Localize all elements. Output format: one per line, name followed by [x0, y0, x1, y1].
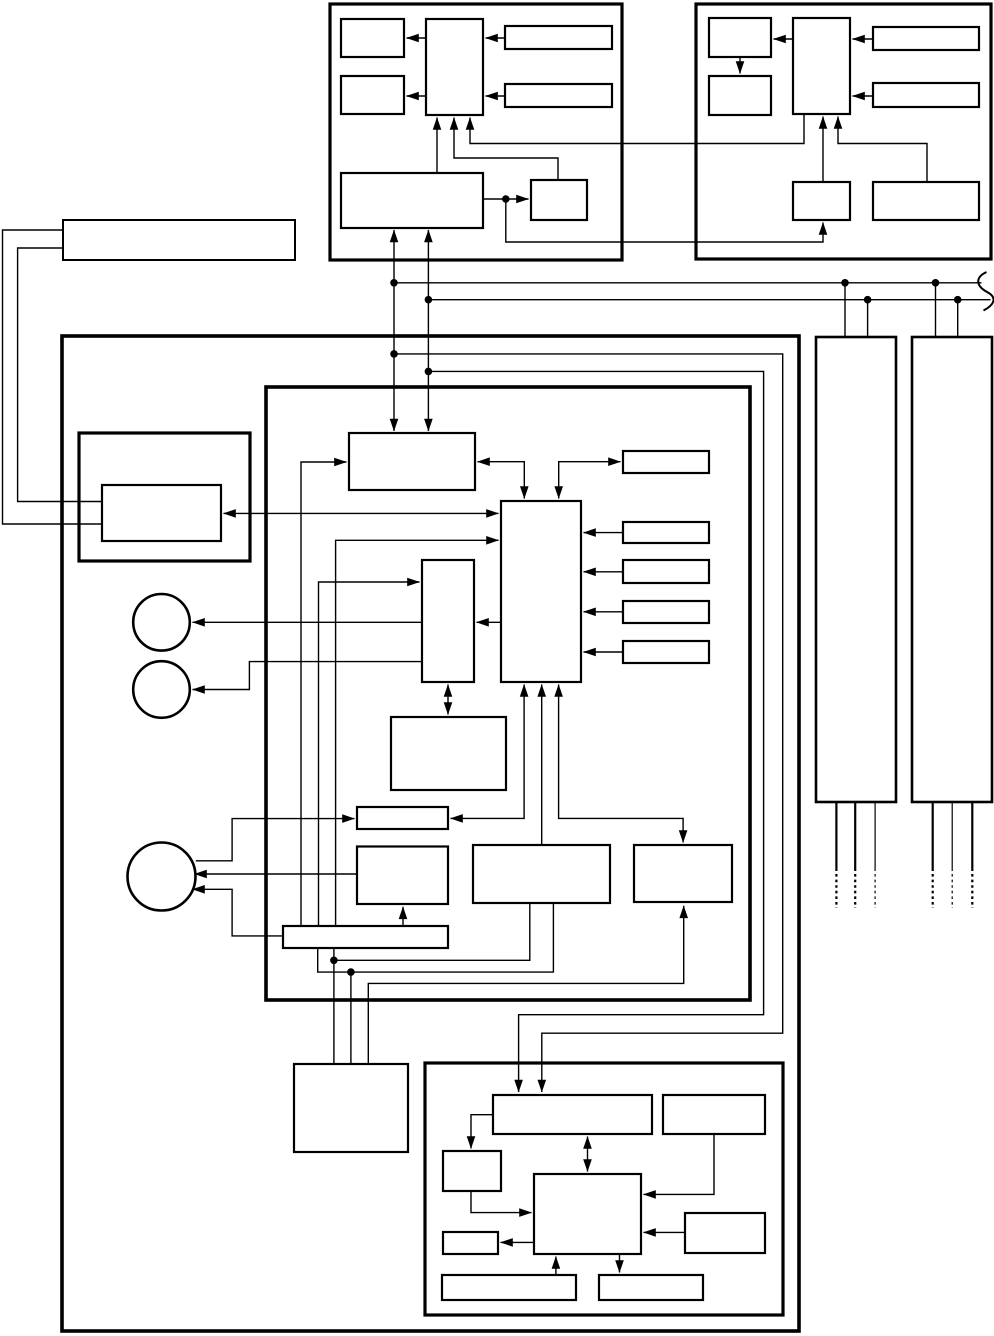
wire: K to circle 3 — [195, 873, 358, 875]
box TR-D — [873, 27, 979, 50]
tail solid lines below tall box B — [932, 802, 934, 871]
tail dotted lines below tall box B — [932, 874, 934, 908]
box TWB2: bottom-right top wide box — [493, 1095, 652, 1134]
box: tall right A — [816, 337, 896, 802]
box R2 — [623, 522, 709, 543]
wire: R5 to TLB — [584, 651, 624, 653]
drop wire bus1 to tall box A — [844, 283, 846, 337]
junction dot bus2/vert2 — [425, 296, 433, 304]
wire V3: WFB up to TLB — [336, 540, 499, 926]
wire: junction down to BLB (x=351) — [350, 972, 352, 1064]
circle 1 — [133, 594, 190, 651]
box R4 — [623, 601, 709, 623]
box TL-A — [341, 19, 404, 57]
box TR-G — [793, 182, 850, 220]
bus vertical 2 (x=428) with arrows into TL-F and top box — [427, 230, 429, 431]
drop wire bus2 to tall box B — [957, 300, 959, 337]
box TR-F — [873, 182, 979, 220]
wire: TR-F top to TR-C bottom — [838, 117, 927, 183]
wire: inner module to TLB (bidirectional long) — [224, 512, 499, 514]
bus continuation squiggle — [978, 272, 993, 311]
junction dot W2 — [425, 368, 433, 376]
wire: TB right to TLB top (bidirectional) — [478, 462, 525, 499]
junction dot — [841, 279, 849, 287]
wire: WFB up to K — [402, 907, 404, 926]
box BB: below middle box — [391, 717, 506, 790]
tail solid lines below tall box A — [835, 802, 837, 871]
wire: WFB left to circle 3 — [193, 889, 284, 936]
box S1 — [443, 1151, 501, 1191]
inner frame: processing section — [266, 387, 750, 1000]
wire: TL-E to TL-C — [486, 95, 506, 97]
wire L2: wide box left to inner module (inner loop) — [18, 248, 102, 502]
wire: RB to CB — [644, 1231, 686, 1233]
wire: TL-D to TL-C — [486, 37, 506, 39]
wire: WFB down bracket (x=318) to junction — [318, 948, 351, 972]
outer frame: lower main unit — [62, 336, 799, 1331]
bus line 1 — [394, 282, 982, 284]
box SP — [473, 845, 610, 903]
wire: TR-E to TR-C — [853, 95, 874, 97]
wire W3: BLB up and right to SP2 bottom — [368, 906, 683, 1064]
box TR-E — [873, 83, 979, 107]
box BLB: bottom-left box — [294, 1064, 408, 1152]
wire: TL-F to TL-G — [483, 198, 529, 200]
wire: TR-A down to TR-B — [739, 57, 741, 74]
box: inner module box (in double frame) — [102, 485, 221, 541]
box: top-left wide box — [63, 220, 295, 260]
wire: TLB to MB — [477, 621, 502, 623]
junction dot — [932, 279, 940, 287]
wire: TR-C bottom to TL-C bottom (inter-unit) — [470, 114, 804, 144]
wire: B1 up to CB — [555, 1257, 557, 1276]
box S2 — [443, 1232, 498, 1254]
wire: SP top to TLB bottom — [541, 685, 543, 846]
junction dot W1 — [390, 350, 398, 358]
wire: TL-C to TL-A — [407, 37, 427, 39]
wire: TL-F up to TL-C — [436, 118, 438, 174]
box SP2 — [634, 845, 732, 902]
box B1 — [442, 1275, 576, 1300]
wire: circle 3 to TWB — [196, 819, 355, 861]
box TWB: thin wide box — [357, 807, 448, 829]
wire: WFB down through junction to BLB (x=334) — [333, 948, 335, 1064]
wire: TWB2 left down to S1 — [471, 1115, 493, 1149]
wire: R4 to TLB — [584, 611, 624, 613]
wire L1: wide box left to inner module (outer loop) — [3, 230, 103, 524]
junction dot — [330, 957, 338, 965]
drop wire bus1 to tall box B — [935, 283, 937, 337]
wire: MB to BB (bidirectional vertical) — [447, 685, 449, 715]
wire: TLB top to R1 (bidirectional) — [559, 462, 621, 499]
box TR-C tall — [793, 18, 850, 114]
wire W2: vert2 to bottom-right unit top box — [428, 371, 763, 1092]
box R3 — [623, 560, 709, 583]
box TL-G — [531, 180, 587, 220]
wire: TR-G up to TR-C — [822, 117, 824, 183]
group frame: top-right unit — [696, 4, 991, 259]
box WFB: wide flat box — [283, 926, 448, 948]
wire branch: junction to SP bottom — [334, 903, 530, 960]
bus vertical 1 (x=394) with arrows into TL-F and top box — [393, 230, 395, 431]
wire: TR-D to TR-C — [853, 38, 874, 40]
wire V1: WFB up to TB — [301, 462, 347, 926]
box TR-A — [709, 18, 771, 57]
wire: R2 to TLB — [584, 532, 624, 534]
wire: TLB bottom to SP2 top (bidirectional) — [559, 685, 684, 843]
wire: R3 to TLB — [584, 571, 624, 573]
junction dot on F-G wire — [502, 195, 510, 203]
wire: TWB2 to CB (bidirectional vertical) — [587, 1137, 589, 1172]
box TL-E — [505, 84, 612, 107]
wire W1: vert1 to bottom-right unit top box — [394, 354, 783, 1092]
box RB — [685, 1213, 765, 1253]
box TRB: bottom-right top right box — [663, 1095, 765, 1134]
wire: TWB right to TLB bottom (bidirectional) — [451, 685, 525, 819]
junction dot — [864, 296, 872, 304]
circle 2 — [133, 661, 190, 718]
drop wire bus2 to tall box A — [867, 300, 869, 337]
box K — [357, 847, 448, 905]
box MB: middle narrow box — [422, 560, 474, 682]
wire: TL-G top to TL-C bottom — [454, 118, 558, 181]
box: tall right B — [912, 337, 992, 802]
box TL-B — [341, 76, 404, 114]
wire: CB to S2 — [501, 1241, 535, 1243]
group frame: bottom-right unit — [425, 1063, 783, 1315]
box CB: central box — [534, 1174, 641, 1254]
junction dot — [347, 968, 355, 976]
wire: MB to circle 2 — [193, 662, 423, 690]
box TR-B — [709, 76, 771, 115]
circle 3 — [128, 843, 196, 911]
wire: MB to circle 1 — [193, 621, 423, 623]
double-border module frame — [79, 433, 250, 561]
tail dotted lines below tall box A — [835, 874, 837, 908]
box TL-D — [505, 26, 612, 49]
wire: TL-C to TL-B — [407, 95, 427, 97]
junction dot — [954, 296, 962, 304]
box R1 — [623, 451, 709, 473]
wire: CB down to B2 — [619, 1254, 621, 1273]
wire: S1 down to CB — [471, 1191, 532, 1213]
wire: TR-C to TR-A — [774, 38, 794, 40]
wire: TRB down to CB — [644, 1134, 715, 1194]
bus line 2 — [428, 299, 990, 301]
box TL-F wide — [341, 173, 483, 228]
box TL-C tall — [426, 19, 483, 115]
box R5 — [623, 641, 709, 663]
wire: junction down and right to TR-G bottom — [506, 199, 823, 242]
wire V2: WFB up to MB — [319, 582, 420, 926]
box TB: top box of inner section — [349, 433, 475, 490]
junction dot bus1/vert1 — [390, 279, 398, 287]
group frame: top-left unit — [330, 4, 622, 260]
wire branch: junction to SP bottom (x=553) — [351, 903, 554, 972]
box B2 — [599, 1275, 703, 1300]
box TLB: central tall box — [501, 501, 581, 682]
